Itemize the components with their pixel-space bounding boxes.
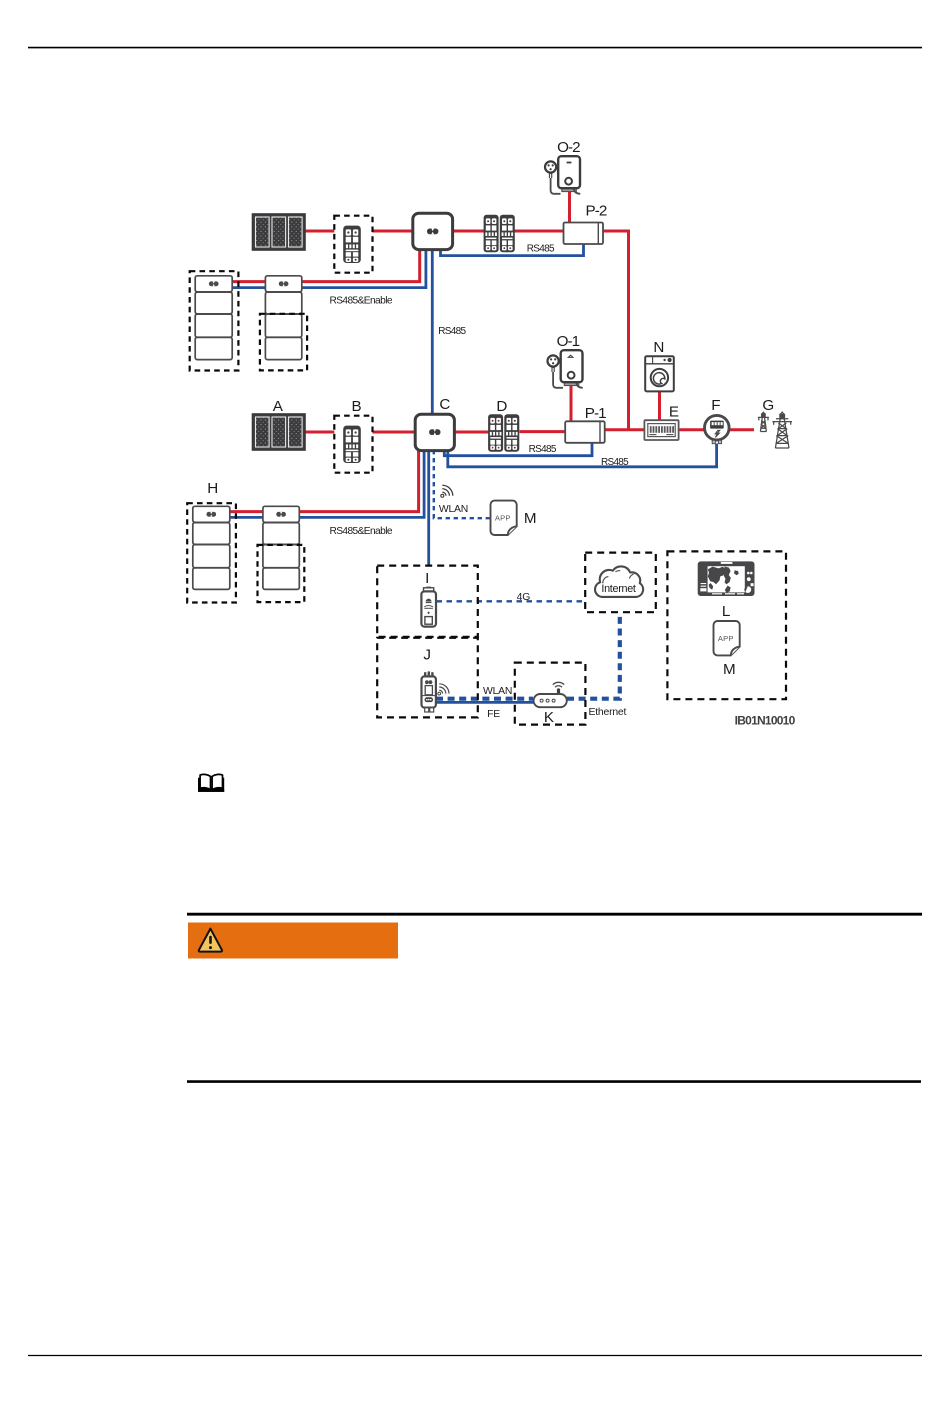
Internet cloud (595, 566, 643, 596)
router K icon (534, 682, 567, 707)
heat pump O-1 (548, 350, 583, 388)
label RS485 (cascade vertical) (438, 326, 466, 337)
header rule (28, 47, 922, 49)
wire: breaker D to P-1 (red) (520, 430, 566, 433)
svg-text:FE: FE (487, 709, 500, 720)
heat pump O-2 (545, 156, 580, 194)
svg-text:4G: 4G (517, 592, 531, 603)
DC switch breaker icon (top) (343, 226, 361, 263)
footer rule (28, 1355, 922, 1357)
DC switch B breaker icon (343, 426, 361, 463)
washing machine N (645, 356, 674, 391)
wire: PV2 to inverter2 (red) (305, 230, 415, 233)
svg-text:RS485&Enable: RS485&Enable (329, 526, 392, 537)
label N (653, 339, 664, 356)
inverter 2 (top, unlabeled) (413, 213, 453, 249)
label A (273, 398, 284, 415)
svg-text:RS485&Enable: RS485&Enable (329, 296, 392, 307)
power sensor P-1 box (565, 421, 605, 443)
wire: P-2 to grid junction (red) (603, 231, 629, 430)
label E (669, 403, 679, 420)
PV string A (253, 414, 306, 450)
wire: router K to Internet Ethernet (blue dashed) (567, 613, 620, 699)
svg-text:A: A (273, 398, 284, 415)
wire: F to grid G (red) (730, 428, 754, 431)
WLAN-FE dongle J icon (422, 671, 436, 712)
wire: battery H to inverter C RS485 (blue) (229, 450, 424, 517)
label O-1 (557, 333, 580, 350)
thick rule below caution (187, 1080, 921, 1083)
svg-text:RS485: RS485 (529, 444, 557, 455)
DC switch B dashed box (334, 416, 372, 473)
wire: N to E (red) (658, 392, 661, 421)
wire: dongle I to Internet 4G (blue dashed) (437, 600, 586, 602)
svg-text:B: B (352, 398, 362, 415)
wire: dongle J to router K FE (blue) (436, 701, 534, 704)
wire: battery2 to inverter2 RS485 (blue) (232, 249, 426, 288)
wire: AC breaker2 to P-2 (red) (514, 230, 564, 233)
wire: P-1 to E mains (red) (605, 428, 645, 431)
svg-text:WLAN: WLAN (483, 686, 512, 697)
svg-text:J: J (423, 646, 431, 663)
svg-text:IB01N10010: IB01N10010 (735, 713, 796, 727)
svg-text:I: I (425, 570, 429, 587)
label L (722, 603, 730, 620)
app M icon (near C) (491, 501, 517, 535)
wire: O-1 to P-1 (red) (570, 384, 573, 422)
svg-text:APP: APP (495, 514, 511, 523)
wire: inverter2 to AC breaker2 (red) (454, 230, 484, 233)
wire: breaker B to inverter C (red) (373, 431, 416, 434)
AC breaker panel 2 (top, unlabeled) (484, 215, 515, 252)
svg-text:Ethernet: Ethernet (589, 707, 627, 718)
wire: inverter2 to P-2 RS485 (blue) (441, 244, 584, 256)
svg-text:P-1: P-1 (585, 405, 606, 422)
wire: dongle J to router K WLAN (blue dashed) (436, 697, 533, 701)
svg-text:M: M (524, 510, 537, 527)
Internet dashed box (585, 553, 656, 613)
thick rule above caution (187, 913, 922, 916)
label J (423, 646, 431, 663)
svg-text:O-2: O-2 (557, 139, 580, 156)
power grid G towers (758, 412, 792, 448)
svg-text:C: C (439, 396, 450, 413)
dongle J wifi waves (438, 684, 449, 695)
svg-text:APP: APP (718, 634, 734, 643)
battery H stack 1 modules (193, 506, 230, 589)
4G dongle I icon (421, 587, 436, 627)
label RS485&Enable (top battery) (329, 296, 392, 307)
wire: inverter C to smart dongle I (blue) (427, 450, 430, 565)
smart power meter F (705, 415, 730, 443)
label G (762, 397, 774, 414)
svg-text:RS485: RS485 (527, 244, 555, 255)
label B (352, 398, 362, 415)
wire: battery2 to inverter2 (red) (232, 249, 420, 282)
svg-text:WLAN: WLAN (439, 504, 468, 515)
wire: battery H to inverter C (red) (229, 450, 419, 512)
power sensor P-2 box (564, 223, 604, 245)
wire: inverter C to P-1 RS485 (blue) (444, 444, 592, 456)
svg-text:P-2: P-2 (586, 203, 607, 220)
wire: inverter C WLAN to app M (blue dashed) (434, 450, 490, 518)
svg-text:RS485: RS485 (601, 457, 629, 468)
label 4G (517, 592, 531, 603)
svg-text:O-1: O-1 (557, 333, 580, 350)
label FE (487, 709, 500, 720)
battery stack 2b expansion dashed box (260, 314, 307, 371)
battery H stack 2 expansion dashed box (258, 545, 305, 602)
battery stack 2a modules (195, 276, 232, 360)
label P-1 (585, 405, 606, 422)
label WLAN (439, 504, 468, 515)
label IB01N10010 (735, 713, 796, 727)
svg-text:Internet: Internet (601, 583, 636, 595)
label K (544, 709, 554, 726)
caution banner (188, 923, 398, 959)
dongle I dashed box (377, 566, 478, 637)
battery stack 2b modules (265, 276, 301, 360)
label P-2 (586, 203, 607, 220)
label H (207, 480, 218, 497)
svg-text:E: E (669, 403, 679, 420)
svg-text:N: N (653, 339, 664, 356)
label M (in L box) (723, 661, 736, 678)
label RS485&Enable (battery H) (329, 526, 392, 537)
PV string 2 (top, unlabeled) (253, 214, 306, 250)
svg-text:D: D (496, 398, 507, 415)
label C (439, 396, 450, 413)
label I (425, 570, 429, 587)
battery stack 2a dashed box (top group) (190, 271, 239, 370)
label RS485 (C to meter F) (601, 457, 629, 468)
WLAN signal icon at inverter C (441, 485, 453, 497)
router K dashed box (515, 663, 586, 725)
app M icon (in L box) (714, 621, 740, 655)
label M (near C) (524, 510, 537, 527)
wire: inverter C to breaker D (red) (454, 431, 489, 434)
distribution box E (644, 420, 678, 440)
svg-text:L: L (722, 603, 730, 620)
svg-text:F: F (711, 397, 720, 414)
warning triangle icon (199, 929, 222, 952)
svg-text:M: M (723, 661, 736, 678)
NOTE book icon (198, 774, 224, 791)
svg-text:K: K (544, 709, 554, 726)
battery H stack 2 modules (263, 506, 299, 589)
svg-text:G: G (762, 397, 774, 414)
monitoring screen L icon (698, 561, 755, 596)
label RS485 (top row) (527, 244, 555, 255)
wire: PV A to breaker B (red) (305, 431, 335, 434)
battery H dashed box (187, 503, 236, 602)
wire: inverter C to meter F RS485 (blue) (448, 444, 717, 467)
label Ethernet (589, 707, 627, 718)
wire: E to F (red) (679, 428, 706, 431)
label WLAN (J to K) (483, 686, 512, 697)
wire: O-2 to P-2 (red) (568, 191, 571, 223)
inverter C (415, 414, 454, 450)
label RS485 (C to P-1) (529, 444, 557, 455)
label D (496, 398, 507, 415)
monitoring L and app M dashed box (667, 551, 786, 699)
AC breaker panel D (488, 414, 519, 451)
label O-2 (557, 139, 580, 156)
label F (711, 397, 720, 414)
svg-text:RS485: RS485 (438, 326, 466, 337)
wire: inverter2 to inverter C RS485 cascade (blue) (431, 249, 434, 415)
svg-text:H: H (207, 480, 218, 497)
dongle J dashed box (377, 638, 478, 718)
DC switch dashed box (top, unlabeled) (334, 216, 372, 273)
